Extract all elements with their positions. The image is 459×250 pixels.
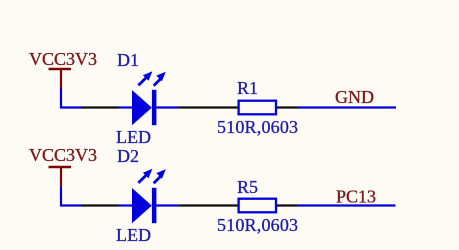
pin 1 of D2 / pin 1 of R5 <box>179 204 238 206</box>
D1 symbol anode lead <box>119 106 133 108</box>
wire VCC3V3 corner to D1 pin (horizontal) <box>60 106 81 108</box>
power port VCC3V3 (bottom) stub <box>60 167 62 187</box>
LED D1 cathode bar <box>152 90 157 125</box>
power port VCC3V3 (top) stub <box>60 69 62 88</box>
LED D2 cathode bar <box>152 188 157 223</box>
LED D1 triangle <box>132 90 152 125</box>
LED D2 triangle <box>132 188 152 223</box>
svg-text:R5: R5 <box>237 177 258 197</box>
power port VCC3V3 (bottom) bar symbol <box>49 166 72 169</box>
LED D1 light arrow 2 <box>154 72 166 86</box>
LED D2 light arrow 1 <box>138 169 152 183</box>
resistor R1 body <box>239 101 276 115</box>
D2 symbol cathode lead <box>156 204 178 206</box>
wire R1 to GND <box>298 106 397 108</box>
pin 2 of R5 <box>277 204 298 206</box>
resistor R5 body <box>239 199 276 213</box>
wire VCC3V3 to D2 (vertical) <box>60 187 62 206</box>
svg-text:R1: R1 <box>237 78 258 98</box>
svg-text:510R,0603: 510R,0603 <box>217 215 298 235</box>
power port VCC3V3 (top) bar symbol <box>49 68 72 71</box>
D1 symbol cathode lead <box>156 106 178 108</box>
pin 2 of D1 (anode side) <box>81 106 119 108</box>
svg-text:D1: D1 <box>117 50 139 70</box>
wire VCC3V3 corner to D2 pin (horizontal) <box>60 204 81 206</box>
pin 2 of R1 <box>277 106 298 108</box>
wire VCC3V3 to D1 (vertical) <box>60 88 62 108</box>
svg-text:VCC3V3: VCC3V3 <box>29 49 97 69</box>
svg-text:LED: LED <box>116 225 151 245</box>
svg-text:510R,0603: 510R,0603 <box>217 117 298 137</box>
pin 1 of D1 / pin 1 of R1 <box>179 106 238 108</box>
pin 2 of D2 (anode side) <box>81 204 119 206</box>
wire R5 to PC13 <box>298 204 396 206</box>
svg-text:PC13: PC13 <box>336 187 376 207</box>
svg-text:VCC3V3: VCC3V3 <box>29 145 97 165</box>
svg-text:D2: D2 <box>117 146 139 166</box>
svg-text:LED: LED <box>116 127 151 147</box>
LED D1 light arrow 1 <box>138 71 152 85</box>
LED D2 light arrow 2 <box>154 169 166 183</box>
D2 symbol anode lead <box>119 204 133 206</box>
svg-text:GND: GND <box>335 87 374 107</box>
